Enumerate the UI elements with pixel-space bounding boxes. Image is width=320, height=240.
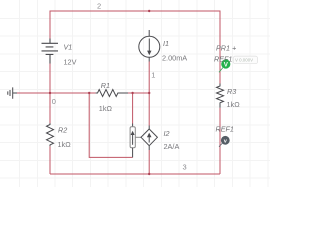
svg-text:REF1: REF1 — [216, 125, 234, 134]
ground — [8, 87, 17, 98]
junction dot left loop — [88, 92, 90, 94]
svg-text:R3: R3 — [227, 87, 236, 96]
probe PR1 (voltage probe, green) — [219, 59, 230, 72]
svg-text:REF1: REF1 — [214, 54, 232, 63]
svg-text:12V: 12V — [64, 57, 77, 66]
junction dot sensor top — [131, 92, 133, 94]
svg-text:1kΩ: 1kΩ — [227, 100, 241, 109]
wire node 0 down to R2 top — [49, 93, 51, 125]
wire sensor top branch — [132, 93, 134, 124]
current sensor (controlling branch) — [130, 124, 141, 158]
wire R3 bottom to bottom rail — [219, 108, 221, 174]
svg-text:V1: V1 — [64, 42, 73, 51]
svg-text:3: 3 — [183, 163, 187, 172]
wire I2 bottom to bottom rail — [148, 150, 150, 174]
svg-text:0: 0 — [52, 97, 56, 106]
wire ground to node 0 — [17, 92, 51, 94]
svg-text:R1: R1 — [101, 81, 110, 90]
wire net3 bottom rail — [50, 173, 220, 175]
svg-text:1kΩ: 1kΩ — [58, 140, 72, 149]
svg-text:2A/A: 2A/A — [164, 142, 180, 151]
wire node 1 junction down to I2 top — [148, 93, 150, 126]
wire net2 top: V1+ to I1 top to R3 top — [50, 11, 220, 84]
junction dot node 1 — [148, 92, 150, 94]
svg-text:V 0.000V: V 0.000V — [235, 58, 253, 63]
svg-text:1: 1 — [151, 70, 155, 79]
svg-text:I1: I1 — [163, 39, 169, 48]
junction dot net3/I2 — [148, 173, 150, 175]
dependent source I2 (CCCS) — [141, 126, 157, 151]
junction dot node 0 — [49, 92, 51, 94]
wire I1 bottom to node 1 junction — [148, 62, 150, 94]
svg-text:2.00mA: 2.00mA — [162, 54, 187, 63]
wire V1- to node 0 — [49, 64, 51, 94]
svg-text:R2: R2 — [58, 126, 67, 135]
junction dot net2/I1 — [148, 10, 150, 12]
resistor R2 — [47, 123, 54, 146]
current source I1 — [139, 30, 160, 62]
wire R1 right to diamond node — [128, 92, 149, 94]
wire R2 bottom to bottom rail — [49, 146, 51, 174]
svg-text:I2: I2 — [164, 129, 170, 138]
svg-text:1kΩ: 1kΩ — [99, 104, 113, 113]
wire left loop down and across to sensor bottom — [89, 93, 132, 157]
wire node 0 to R1 left — [50, 92, 96, 94]
resistor R3 — [217, 84, 224, 108]
probe REF1 (reference probe, gray) — [219, 136, 230, 147]
svg-text:PR1 +: PR1 + — [216, 43, 236, 52]
svg-text:2: 2 — [97, 1, 101, 10]
probe readout box V 0.000V — [233, 56, 257, 64]
background grid (decorative) — [0, 0, 270, 187]
battery V1 — [42, 39, 59, 64]
resistor R1 — [96, 90, 128, 97]
